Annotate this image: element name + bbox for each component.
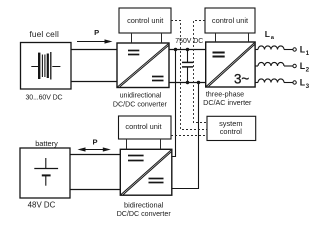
wire fuel cell to converter (bottom) <box>71 81 117 83</box>
three-phase DC/AC inverter block <box>206 42 255 87</box>
control tick CU2 to inverter (right) <box>248 33 250 42</box>
wire riser bus to bidirectional converter (top) <box>172 50 176 157</box>
control tick CU3 to bidirectional converter (right) <box>160 139 162 149</box>
terminal L2 <box>293 64 296 67</box>
svg-text:control: control <box>220 127 243 136</box>
system control block <box>207 116 256 140</box>
svg-text:3~: 3~ <box>234 72 249 87</box>
wire riser bus to bidirectional converter (bottom) <box>172 83 199 189</box>
svg-text:48V DC: 48V DC <box>28 201 56 210</box>
dashed comm line CU1 to system control <box>171 21 207 130</box>
control unit 3 (bidirectional converter) <box>119 116 172 139</box>
svg-text:750V DC: 750V DC <box>175 38 203 45</box>
control unit 2 (inverter) <box>205 8 255 33</box>
svg-text:30...60V DC: 30...60V DC <box>25 94 62 101</box>
svg-text:control unit: control unit <box>125 122 161 131</box>
battery symbol <box>34 158 58 186</box>
junction node bus bottom right <box>197 81 200 84</box>
svg-text:control unit: control unit <box>212 16 248 25</box>
fuel cell symbol <box>31 52 60 80</box>
svg-text:2: 2 <box>306 66 310 73</box>
power flow arrow P (fuel cell) <box>77 39 113 43</box>
svg-text:fuel cell: fuel cell <box>29 29 58 39</box>
svg-text:bidirectional: bidirectional <box>124 200 164 209</box>
svg-text:DC/AC inverter: DC/AC inverter <box>203 98 252 107</box>
inductor La phase 1 <box>255 46 293 50</box>
wire fuel cell to converter (top) <box>71 49 117 51</box>
control unit 1 (unidirectional converter) <box>119 8 171 33</box>
svg-text:L: L <box>265 29 270 39</box>
wire battery to bidirectional converter (bottom) <box>70 189 120 191</box>
inductor La phase 3 <box>255 79 293 83</box>
battery block <box>20 148 70 198</box>
inductor La phase 2 <box>255 62 293 66</box>
wire DC bus top <box>169 49 206 51</box>
junction node bus top left <box>174 48 177 51</box>
junction node bus bottom capacitor <box>186 81 189 84</box>
svg-text:P: P <box>94 28 99 37</box>
wire DC bus bottom <box>169 82 206 84</box>
unidirectional DC/DC converter block <box>117 43 169 88</box>
control tick CU2 to inverter (left) <box>215 33 217 42</box>
svg-text:3: 3 <box>306 83 310 90</box>
terminal L1 <box>293 48 296 51</box>
terminal L3 <box>293 81 296 84</box>
svg-text:P: P <box>92 137 97 146</box>
svg-text:DC/DC converter: DC/DC converter <box>117 210 172 218</box>
control tick CU1 to converter (right) <box>161 33 163 43</box>
svg-text:1: 1 <box>306 50 310 57</box>
svg-text:battery: battery <box>35 139 58 148</box>
fuel cell block <box>21 43 72 90</box>
control tick CU3 to bidirectional converter (left) <box>126 139 128 149</box>
junction node bus top capacitor <box>186 48 189 51</box>
bidirectional DC/DC converter block <box>120 149 172 195</box>
dashed comm line CU3 to system control <box>171 135 207 137</box>
control tick CU1 to converter (left) <box>131 33 133 43</box>
svg-text:unidirectional: unidirectional <box>120 91 162 99</box>
svg-text:DC/DC converter: DC/DC converter <box>113 101 168 109</box>
dashed comm line CU2 to system control <box>194 21 208 123</box>
wire battery to bidirectional converter (top) <box>70 154 120 156</box>
svg-text:control unit: control unit <box>127 16 163 25</box>
capacitor C (DC link) <box>182 50 193 83</box>
power flow double arrow P (battery) <box>78 147 111 151</box>
